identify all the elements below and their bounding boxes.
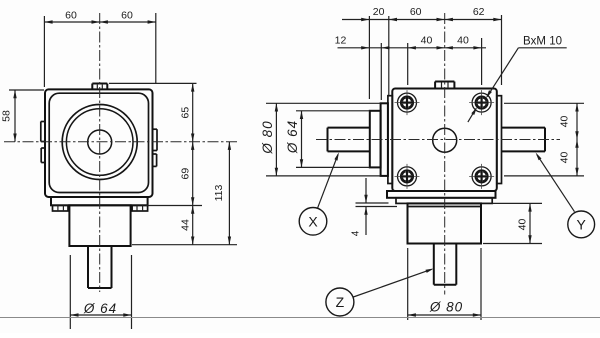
dimension text 60 left <box>65 10 77 22</box>
dimension dia64 extension lines <box>70 255 131 329</box>
dimension text 65 <box>179 107 191 119</box>
dimension 60 60 line <box>44 20 155 23</box>
svg-text:60: 60 <box>65 10 77 22</box>
left view output shaft <box>88 246 112 288</box>
extension lines dia80 <box>266 103 381 176</box>
left view bottom flange strip <box>51 197 148 205</box>
dimension text 40 upper right <box>559 116 571 128</box>
right view input shaft X <box>328 128 370 152</box>
svg-text:4: 4 <box>351 230 362 236</box>
dimension 60 60 extension lines <box>44 13 155 87</box>
page rule bottom <box>0 317 600 319</box>
screw top-right <box>469 90 494 115</box>
extension lines top rows <box>369 15 501 100</box>
dimension row 12 40 40 line <box>338 46 487 49</box>
svg-text:40: 40 <box>517 219 529 231</box>
left view bearing outer circle <box>62 105 137 180</box>
extension lines dim 4 <box>356 203 398 207</box>
dimension 113 line <box>228 142 231 245</box>
dimension text 60 top <box>410 6 422 18</box>
svg-text:40: 40 <box>559 116 571 128</box>
dimension text 69 <box>179 168 191 180</box>
right view center bore circle <box>433 128 457 152</box>
BxM 10 leader lower arrow <box>468 107 477 122</box>
dimension text 40 left <box>421 35 433 47</box>
dimension 58 line <box>13 90 16 142</box>
dimension dia64 line <box>70 313 131 316</box>
left view bottom block <box>69 205 130 246</box>
dimension dia80 bottom line <box>408 313 481 316</box>
svg-text:60: 60 <box>410 6 422 18</box>
balloon X leader <box>318 152 339 208</box>
dimension text dia 80 bottom <box>429 300 463 315</box>
dimension row 20 60 62 line <box>342 18 502 21</box>
right view bottom plate band <box>396 198 492 204</box>
balloon Z circle <box>326 288 354 316</box>
svg-text:12: 12 <box>335 35 347 47</box>
svg-text:Ø 80: Ø 80 <box>429 300 463 315</box>
svg-text:65: 65 <box>179 107 191 119</box>
extension lines right 40 40 <box>504 103 584 176</box>
balloon Y leader <box>536 153 575 212</box>
svg-text:Z: Z <box>336 294 345 310</box>
left view horizontal centerline <box>4 141 237 143</box>
right view left flange dia80 <box>381 103 388 176</box>
extension lines dia64 boss <box>296 111 370 168</box>
right view left boss dia64 <box>370 111 381 168</box>
left view left foot <box>53 205 69 211</box>
svg-text:Ø 80: Ø 80 <box>260 120 275 154</box>
screw top-left <box>395 90 420 115</box>
label BxM 10 <box>523 35 562 47</box>
right view left side rim <box>388 96 392 184</box>
dimension dia80 bottom extension lines <box>408 248 481 320</box>
svg-text:Y: Y <box>577 216 587 232</box>
dimension text 44 <box>179 219 191 231</box>
extension line block bottom <box>132 244 237 246</box>
right view bottom block <box>408 203 482 243</box>
left view top filler plug tab <box>92 84 107 90</box>
dimension text 113 <box>213 184 225 201</box>
dimension dia80 left line <box>275 103 278 176</box>
svg-text:69: 69 <box>179 168 191 180</box>
dimension text dia 64 left <box>285 120 300 154</box>
left view gearbox body outline <box>45 89 153 197</box>
dimension 40 40 right line <box>575 103 578 176</box>
right view horizontal centerline <box>316 139 560 141</box>
dimension text 12 <box>335 35 347 47</box>
right view right side rim <box>497 96 502 184</box>
left view left-side lug lower <box>41 148 45 163</box>
svg-text:40: 40 <box>457 35 469 47</box>
screw bottom-right <box>469 164 494 189</box>
dimension text 62 <box>473 6 485 18</box>
svg-text:44: 44 <box>179 219 191 231</box>
dimension text 40 bottom <box>517 219 529 231</box>
dimension text 60 right <box>121 10 133 22</box>
dimension text 40 right <box>457 35 469 47</box>
left view right-side lug upper <box>153 129 158 150</box>
extension line flange bottom <box>146 205 202 207</box>
left view right foot <box>132 205 148 211</box>
svg-text:62: 62 <box>473 6 485 18</box>
svg-text:60: 60 <box>121 10 133 22</box>
screw bottom-left <box>395 164 420 189</box>
svg-text:40: 40 <box>421 35 433 47</box>
dimension 65 69 44 line <box>191 83 194 244</box>
dimension dia64 left line <box>300 111 303 168</box>
BxM 10 leader <box>486 48 567 98</box>
svg-text:20: 20 <box>373 6 385 18</box>
svg-text:Ø 64: Ø 64 <box>83 301 117 316</box>
extension lines dim 40 bottom <box>483 203 542 243</box>
right view body outline <box>392 89 497 192</box>
right view output shaft Y <box>502 128 546 152</box>
dimension text dia 64 <box>83 301 117 316</box>
left view right-side lug lower <box>153 154 157 166</box>
right view top filler plug tab <box>435 82 454 89</box>
svg-text:BxM 10: BxM 10 <box>523 35 562 47</box>
left view shaft hub circle <box>88 130 112 154</box>
left view face plate rounded square <box>49 93 148 192</box>
svg-text:58: 58 <box>1 110 13 122</box>
balloon Y circle <box>568 211 595 238</box>
dimension text 58 <box>1 110 13 122</box>
left view vertical centerline <box>99 13 101 292</box>
dimension 4 line <box>364 178 367 235</box>
dimension text 4 <box>351 230 362 236</box>
balloon Z leader <box>353 269 434 298</box>
left view bearing inner circle <box>66 109 133 176</box>
svg-text:40: 40 <box>559 152 571 164</box>
left view left-side lug upper <box>41 122 45 142</box>
dimension text 40 lower right <box>559 152 571 164</box>
right view vertical centerline <box>444 13 446 295</box>
right view bottom shaft Z <box>434 244 457 285</box>
balloon X circle <box>299 208 327 236</box>
dimension text dia 80 left <box>260 120 275 154</box>
dimension 58 extension line <box>9 89 44 91</box>
dimension text 20 <box>373 6 385 18</box>
svg-text:113: 113 <box>213 184 225 201</box>
dimension 40 bottom line <box>528 203 531 243</box>
right view bottom flange strip <box>387 191 496 198</box>
svg-text:X: X <box>308 213 318 229</box>
svg-text:Ø 64: Ø 64 <box>285 120 300 154</box>
extension line tab top <box>109 82 197 84</box>
